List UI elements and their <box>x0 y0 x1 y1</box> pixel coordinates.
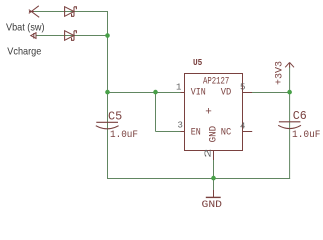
diode D2 <box>65 31 77 41</box>
wire Vcharge <box>36 35 109 37</box>
diode D1 <box>65 7 77 17</box>
pin 5 VO stub <box>243 92 253 94</box>
wire to VIN <box>107 92 181 94</box>
svg-text:3: 3 <box>178 121 183 131</box>
capacitor C6 <box>278 122 301 129</box>
arrow Vbat (sw) <box>29 6 39 17</box>
op-amp U5 body <box>185 74 243 151</box>
junction 3v3 <box>287 90 292 95</box>
pin 4 NC stub <box>243 131 253 133</box>
junction gnd <box>211 176 216 181</box>
wire +3V3 vertical <box>289 67 291 180</box>
svg-text:AP2127: AP2127 <box>203 76 229 87</box>
capacitor C5 <box>96 122 119 129</box>
svg-text:2: 2 <box>204 149 214 159</box>
svg-text:U5: U5 <box>193 58 202 68</box>
junction en <box>153 90 158 95</box>
wire EN vertical <box>155 93 157 132</box>
svg-text:EN: EN <box>191 128 201 139</box>
wire gnd symbol stub <box>213 179 215 191</box>
junction vin <box>105 90 110 95</box>
svg-text:Vbat (sw): Vbat (sw) <box>6 21 45 33</box>
pin 1 VIN stub <box>175 92 185 94</box>
wire Vbat top <box>31 11 108 13</box>
wire VO to +3V3 node <box>252 92 290 94</box>
svg-text:NC: NC <box>221 128 232 139</box>
svg-text:+: + <box>205 106 212 118</box>
svg-text:C5: C5 <box>108 110 122 123</box>
svg-text:Vcharge: Vcharge <box>7 45 41 57</box>
svg-text:VIN: VIN <box>191 88 206 99</box>
svg-text:+3V3: +3V3 <box>274 61 285 85</box>
junction vcharge <box>105 33 110 38</box>
svg-text:1.0uF: 1.0uF <box>292 130 321 141</box>
wire IC gnd pin down <box>213 160 215 179</box>
wire GND rail <box>107 178 290 180</box>
pin 3 EN stub <box>175 131 185 133</box>
wire main vertical <box>107 11 109 179</box>
svg-text:4: 4 <box>240 122 245 132</box>
pin 2 GND stub <box>213 150 215 160</box>
svg-text:5: 5 <box>240 83 245 93</box>
wire EN horizontal <box>156 131 181 133</box>
svg-text:1: 1 <box>176 83 181 93</box>
svg-text:GND: GND <box>208 126 219 143</box>
svg-text:C6: C6 <box>293 110 307 123</box>
arrow Vcharge <box>31 33 36 39</box>
svg-text:GND: GND <box>202 200 223 211</box>
ground symbol <box>206 190 221 197</box>
supply arrow +3V3 <box>285 62 294 67</box>
svg-text:1.0uF: 1.0uF <box>110 130 138 141</box>
svg-text:VD: VD <box>221 88 232 99</box>
